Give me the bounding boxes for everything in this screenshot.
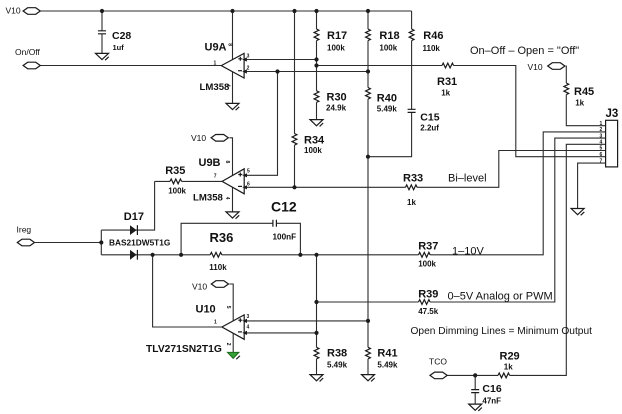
svg-text:8: 8: [227, 43, 233, 46]
svg-text:1: 1: [214, 319, 217, 325]
diode D17 dual BAS21DW5T1G: [109, 211, 170, 260]
node R31/R17: [314, 63, 318, 67]
resistor R35: [165, 165, 186, 196]
svg-text:100k: 100k: [168, 187, 186, 196]
svg-text:4: 4: [225, 84, 231, 87]
svg-text:R17: R17: [327, 30, 347, 42]
svg-text:47nF: 47nF: [482, 397, 501, 406]
svg-text:100k: 100k: [418, 259, 436, 268]
node loop left: [179, 253, 183, 257]
svg-text:2: 2: [247, 65, 250, 71]
svg-text:7: 7: [600, 158, 603, 164]
wire feedback loop C12 branch: [181, 223, 300, 255]
ground C28: [96, 53, 109, 60]
resistor R45: [564, 83, 594, 108]
svg-text:Ireg: Ireg: [17, 225, 32, 235]
svg-text:C15: C15: [420, 111, 439, 123]
svg-text:110k: 110k: [423, 44, 441, 53]
svg-text:6: 6: [600, 152, 603, 158]
svg-text:1: 1: [214, 60, 217, 66]
resistor R39: [418, 288, 439, 316]
svg-text:R33: R33: [403, 172, 423, 184]
resistor R31: [437, 63, 457, 97]
svg-text:R29: R29: [500, 350, 520, 362]
svg-text:3: 3: [247, 53, 250, 59]
ground R30: [310, 120, 323, 127]
node V10 at U10: [192, 281, 228, 292]
svg-text:R31: R31: [437, 76, 457, 88]
svg-text:2.2uf: 2.2uf: [420, 124, 439, 133]
svg-text:C12: C12: [271, 199, 297, 215]
resistor R40: [366, 88, 398, 114]
resistor R37: [418, 241, 438, 269]
svg-text:R37: R37: [418, 241, 438, 253]
svg-text:24.9k: 24.9k: [326, 103, 347, 112]
wire C16 stem: [474, 375, 476, 404]
svg-text:J3: J3: [606, 108, 619, 120]
svg-text:BAS21DW5T1G: BAS21DW5T1G: [109, 238, 170, 248]
wire U9B pin5 riser to pin2 node: [244, 72, 277, 176]
svg-text:R40: R40: [377, 93, 397, 105]
svg-text:R45: R45: [574, 86, 594, 98]
svg-text:5.49k: 5.49k: [377, 361, 398, 370]
svg-text:V10: V10: [192, 282, 207, 292]
node Ireg: [17, 225, 35, 246]
wire top V10 rail: [40, 10, 411, 12]
capacitor C12: [271, 199, 297, 242]
svg-text:8: 8: [224, 161, 230, 164]
ground U9B: [226, 212, 239, 219]
wire R45 branch to J3 pin1: [566, 66, 606, 126]
wire R31 line to J3 pin6: [317, 66, 606, 157]
node U9A V+ on rail: [230, 9, 234, 13]
svg-text:1–10V: 1–10V: [452, 246, 484, 258]
svg-text:V10: V10: [191, 133, 206, 143]
wire J3 pin7 to ground: [578, 163, 606, 208]
svg-text:100k: 100k: [327, 44, 345, 53]
capacitor C16: [471, 383, 502, 406]
wire U9B ground stem: [232, 188, 234, 212]
svg-text:R46: R46: [423, 30, 443, 42]
wire On/Off line to U9A output: [40, 65, 221, 67]
svg-text:LM358: LM358: [193, 193, 224, 204]
wire U9A pin2 to R18 node: [244, 71, 368, 73]
capacitor C15: [408, 109, 440, 132]
node U10 output/D17: [151, 253, 155, 257]
svg-text:100k: 100k: [304, 146, 322, 155]
wire TCO / R29 line to J3 pin4: [448, 144, 606, 375]
svg-text:D17: D17: [124, 211, 144, 223]
svg-text:On/Off: On/Off: [15, 47, 41, 57]
svg-text:0–5V Analog or PWM: 0–5V Analog or PWM: [448, 290, 553, 302]
svg-text:On–Off – Open = "Off": On–Off – Open = "Off": [470, 45, 579, 57]
wire D17 left vertical: [100, 230, 102, 255]
node C15/R40: [366, 155, 370, 159]
svg-text:6: 6: [247, 181, 250, 187]
svg-text:2: 2: [225, 343, 231, 346]
wire R35 to U9B output: [155, 180, 223, 182]
svg-text:V10: V10: [528, 62, 543, 72]
op-amp U9B: [193, 157, 250, 204]
wire R18/R40/R41 column: [367, 11, 369, 375]
ground U9A: [226, 103, 239, 110]
node Ireg/D17: [99, 240, 103, 244]
connector J3: [600, 108, 619, 167]
resistor R30: [314, 91, 347, 113]
svg-text:R35: R35: [165, 165, 185, 177]
svg-text:R41: R41: [377, 348, 397, 360]
svg-text:1: 1: [600, 121, 603, 127]
wire U9A V+ stem: [232, 11, 234, 60]
svg-text:R38: R38: [327, 348, 347, 360]
wire U10 pin4: [244, 332, 316, 334]
op-amp U10: [146, 304, 250, 356]
ground C16: [469, 404, 482, 411]
node pin3/R17: [314, 57, 318, 61]
svg-text:Open Dimming Lines = Minimum O: Open Dimming Lines = Minimum Output: [411, 326, 593, 337]
resistor R33: [403, 172, 423, 207]
svg-text:R36: R36: [210, 230, 234, 245]
capacitor C28: [98, 30, 131, 52]
svg-text:47.5k: 47.5k: [418, 307, 439, 316]
svg-text:C28: C28: [112, 30, 131, 42]
svg-text:100nF: 100nF: [273, 233, 297, 242]
wire R17/R30 column: [316, 11, 318, 120]
svg-text:4: 4: [600, 140, 603, 146]
wire R46/C15 column: [368, 11, 412, 157]
wire U9A ground stem: [232, 72, 234, 104]
wire R39 line to J3 pin3: [317, 138, 606, 302]
svg-text:2: 2: [600, 127, 603, 133]
node R34 on rail: [292, 9, 296, 13]
svg-text:R30: R30: [327, 92, 347, 104]
node V10 top-left: [6, 5, 41, 15]
svg-text:4: 4: [224, 197, 230, 200]
node V10 at U9B: [191, 133, 228, 143]
svg-text:C16: C16: [482, 383, 501, 395]
svg-text:U9A: U9A: [205, 42, 227, 54]
node U10 pin3/R41: [366, 319, 370, 323]
svg-text:5: 5: [600, 146, 603, 152]
wire Ireg lead: [35, 242, 101, 244]
svg-text:U9B: U9B: [199, 157, 221, 169]
node pin2/pin5 riser: [275, 69, 279, 73]
wire mid column to R38: [316, 255, 318, 375]
node U10 pin4 branch: [314, 331, 318, 335]
svg-text:V10: V10: [6, 5, 21, 15]
wire U9B pin6 / R33 line to J3 pin5: [244, 151, 605, 188]
svg-text:1k: 1k: [441, 89, 450, 98]
wire C28 stem: [101, 11, 103, 53]
resistor R18: [366, 29, 400, 53]
svg-text:5.49k: 5.49k: [377, 105, 398, 114]
svg-text:Bi–level: Bi–level: [448, 172, 487, 184]
svg-text:TCO: TCO: [429, 356, 447, 366]
wire U10 output loop: [153, 255, 222, 327]
svg-text:100k: 100k: [379, 44, 397, 53]
node R34/pin6: [292, 185, 296, 189]
node R39 branch: [314, 300, 318, 304]
svg-text:1k: 1k: [407, 198, 416, 207]
wire D17 bottom branch: [101, 254, 181, 256]
node R37 branch: [314, 253, 318, 257]
op-amp U9A: [200, 42, 250, 93]
svg-text:4: 4: [247, 324, 250, 330]
node R18 on rail: [366, 9, 370, 13]
wire R36/R37 line to J3 pin2: [181, 132, 605, 255]
wire U10 V+/ground stem: [229, 284, 233, 352]
svg-text:7: 7: [214, 174, 217, 180]
wire R35 riser to D17 top branch: [101, 181, 154, 230]
svg-text:1uf: 1uf: [113, 43, 125, 52]
svg-text:3: 3: [600, 133, 603, 139]
resistor R34: [292, 134, 325, 156]
svg-text:TLV271SN2T1G: TLV271SN2T1G: [146, 344, 222, 355]
ground R38: [310, 375, 323, 382]
node pin2/R18: [366, 69, 370, 73]
resistor R36: [209, 230, 233, 272]
wire U10 pin3: [244, 320, 368, 322]
node R17 on rail: [314, 9, 318, 13]
ground R41: [362, 375, 375, 382]
node TCO/C16: [473, 373, 477, 377]
svg-text:3: 3: [247, 314, 250, 320]
node loop right: [298, 253, 302, 257]
resistor R46: [409, 29, 443, 53]
node On/Off: [15, 47, 41, 69]
svg-text:5: 5: [247, 168, 250, 174]
node V10 at R45: [528, 62, 565, 72]
wire U9B V+ stem: [229, 138, 232, 175]
svg-text:R39: R39: [418, 288, 438, 300]
resistor R38: [314, 347, 347, 369]
svg-text:R18: R18: [379, 30, 399, 42]
svg-text:5.49k: 5.49k: [327, 361, 348, 370]
svg-text:5: 5: [225, 306, 231, 309]
wire R34 column: [294, 11, 296, 187]
resistor R29: [498, 350, 520, 378]
node C28 on rail: [100, 9, 104, 13]
ground U10 (green power ground): [228, 352, 240, 359]
svg-text:1k: 1k: [575, 99, 584, 108]
resistor R17: [314, 29, 347, 53]
resistor R41: [366, 347, 398, 369]
svg-text:1k: 1k: [504, 363, 513, 372]
node TCO: [429, 356, 447, 378]
svg-text:R34: R34: [304, 135, 325, 147]
ground J3: [571, 209, 584, 216]
svg-text:110k: 110k: [209, 263, 227, 272]
svg-text:U10: U10: [196, 304, 216, 316]
wire U9A pin3 to R17 node: [244, 59, 316, 61]
